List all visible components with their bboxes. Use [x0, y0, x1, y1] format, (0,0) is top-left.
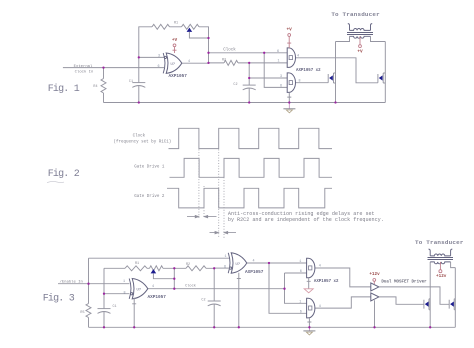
svg-text:To Transducer: To Transducer	[331, 11, 380, 18]
svg-text:1: 1	[277, 59, 279, 63]
svg-text:C2: C2	[201, 298, 205, 302]
svg-text:Clock: Clock	[133, 134, 146, 139]
svg-text:R2: R2	[222, 58, 226, 62]
svg-text:3: 3	[280, 75, 282, 79]
svg-text:AXP1057: AXP1057	[245, 270, 264, 275]
svg-text:4: 4	[319, 265, 321, 269]
svg-text:Dual MOSFET Driver: Dual MOSFET Driver	[381, 280, 427, 285]
svg-text:R5: R5	[80, 311, 84, 315]
svg-text:+12v: +12v	[369, 272, 380, 277]
svg-text:R2: R2	[186, 263, 190, 267]
svg-text:U?: U?	[236, 263, 241, 267]
svg-text:6: 6	[224, 266, 226, 270]
svg-text:8: 8	[298, 79, 300, 83]
svg-text:Fig. 1: Fig. 1	[48, 83, 80, 95]
svg-text:8: 8	[123, 291, 125, 295]
svg-text:C1: C1	[113, 305, 117, 309]
svg-text:+V: +V	[357, 50, 363, 55]
svg-text:(frequency set by R1C1): (frequency set by R1C1)	[113, 139, 171, 144]
svg-text:4: 4	[188, 60, 190, 64]
svg-text:C2: C2	[233, 83, 237, 87]
svg-text:Fig. 2: Fig. 2	[48, 168, 80, 180]
svg-text:External: External	[74, 64, 93, 69]
svg-text:AXP1057: AXP1057	[169, 74, 188, 79]
svg-text:1: 1	[299, 260, 301, 264]
svg-text:6: 6	[277, 50, 279, 54]
svg-text:+12v: +12v	[436, 274, 447, 279]
svg-text:C1: C1	[129, 80, 133, 84]
svg-text:R1: R1	[174, 21, 178, 25]
svg-text:Clock: Clock	[185, 284, 196, 289]
svg-text:Clock: Clock	[223, 48, 236, 53]
svg-text:To Transducer: To Transducer	[415, 239, 464, 246]
svg-text:3: 3	[158, 54, 160, 58]
svg-text:Fig. 3: Fig. 3	[43, 293, 75, 305]
svg-text:+V: +V	[172, 38, 178, 43]
svg-text:+V: +V	[287, 27, 293, 32]
svg-text:U?: U?	[137, 289, 142, 293]
svg-text:4: 4	[297, 54, 299, 58]
svg-text:4: 4	[319, 305, 321, 309]
svg-text:4: 4	[152, 285, 154, 289]
svg-text:Gate Drive 2: Gate Drive 2	[134, 194, 165, 199]
svg-text:6: 6	[280, 85, 282, 89]
svg-text:1: 1	[224, 255, 226, 259]
svg-text:6: 6	[300, 311, 302, 315]
svg-text:6: 6	[157, 65, 159, 69]
svg-text:Gate Drive 1: Gate Drive 1	[134, 165, 165, 170]
svg-text:6: 6	[300, 270, 302, 274]
svg-text:U?: U?	[171, 63, 176, 67]
svg-text:1: 1	[299, 300, 301, 304]
svg-text:AXP1057: AXP1057	[148, 295, 167, 300]
svg-text:AXP1057 x2: AXP1057 x2	[296, 69, 321, 73]
svg-text:R4: R4	[93, 85, 97, 89]
svg-text:Clock In: Clock In	[75, 69, 94, 74]
svg-text:1: 1	[123, 280, 125, 284]
svg-text:by R2C2 and are independent of: by R2C2 and are independent of the clock…	[228, 217, 384, 223]
svg-text:4: 4	[252, 260, 254, 264]
svg-text:R1: R1	[135, 262, 139, 266]
svg-text:Anti-cross-conduction rising e: Anti-cross-conduction rising edge delays…	[228, 211, 375, 217]
svg-text:AXP1057 x2: AXP1057 x2	[314, 280, 339, 284]
